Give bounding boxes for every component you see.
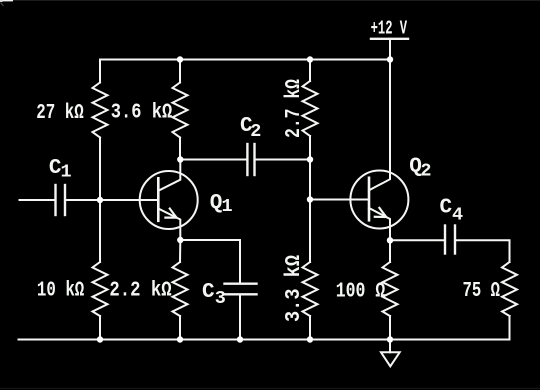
svg-text:100 Ω: 100 Ω (336, 280, 386, 303)
ground symbol (381, 352, 400, 366)
svg-text:10 kΩ: 10 kΩ (37, 280, 85, 303)
svg-text:+12 V: +12 V (371, 18, 408, 40)
node Q2 base (307, 196, 313, 202)
wire C2 node to Q2 base node (309, 160, 311, 200)
wire top rail (100, 60, 390, 83)
transistor Q2 circle (350, 171, 408, 229)
wire +12V stem (389, 39, 391, 60)
node rail ground (387, 336, 393, 342)
svg-text:1: 1 (222, 196, 233, 217)
wire C2 right (256, 159, 310, 161)
wire 2.7k to C2 node (309, 136, 311, 160)
transistor Q2 emitter arrow (375, 208, 386, 217)
svg-text:2: 2 (420, 160, 431, 181)
wire 75R to ground rail (509, 316, 511, 340)
transistor Q2 emitter lead (369, 208, 390, 240)
wire C3 to ground rail (239, 296, 241, 340)
wire 2.2k to ground rail (179, 316, 181, 340)
node Q2 emitter (387, 237, 393, 243)
capacitor C4 right plate (454, 226, 456, 254)
capacitor C1 right plate (64, 185, 66, 215)
wire C2 left (180, 159, 246, 161)
svg-text:2.2 kΩ: 2.2 kΩ (109, 280, 172, 303)
top border artifact (0, 0, 540, 1)
bottom border artifact (0, 388, 540, 389)
capacitor C4 left plate (444, 226, 446, 254)
capacitor C2 left plate (246, 144, 248, 175)
svg-text:3.6 kΩ: 3.6 kΩ (111, 102, 173, 125)
svg-text:75 Ω: 75 Ω (463, 280, 501, 303)
svg-text:C: C (440, 197, 453, 220)
wire 2.7k top lead (309, 60, 311, 82)
capacitor C2 right plate (253, 144, 255, 175)
transistor Q1 emitter arrow (165, 209, 176, 218)
resistor R 2.7k body (303, 81, 318, 136)
transistor Q2 collector lead (369, 60, 390, 191)
resistor R 100 body (383, 262, 398, 316)
svg-text:2: 2 (250, 121, 261, 142)
wire 10k to ground rail (99, 316, 101, 340)
wire C1 to base node (66, 199, 100, 201)
node C2-2.7k (307, 156, 313, 162)
node rail C3 (237, 336, 243, 342)
transistor Q1 emitter lead (158, 209, 180, 241)
wire base node to 10k (99, 200, 101, 262)
wire base node to Q2 (310, 199, 369, 201)
svg-text:4: 4 (452, 205, 463, 226)
node +12V (387, 56, 393, 62)
resistor R 10k body (93, 262, 108, 316)
node 3.6k top (177, 56, 183, 62)
node Q1 collector (177, 156, 183, 162)
wire 3.6k top lead (179, 60, 181, 83)
svg-text:C: C (202, 281, 215, 304)
transistor Q1 collector lead (158, 160, 180, 191)
node Q1 emitter (177, 237, 183, 243)
svg-text:3.3 kΩ: 3.3 kΩ (283, 255, 306, 322)
capacitor C1 left plate (54, 185, 56, 215)
wire base node to Q1 (100, 199, 158, 201)
capacitor C1 left wire (20, 199, 55, 201)
capacitor C3 top plate (225, 283, 257, 285)
transistor Q2 base bar (368, 178, 371, 221)
wire 27k to base node (99, 138, 101, 201)
svg-text:2.7 kΩ: 2.7 kΩ (283, 79, 306, 138)
resistor R 27k body (93, 83, 108, 138)
wire C4 to 75R (456, 240, 509, 262)
resistor R 3.3k body (303, 262, 318, 316)
svg-text:1: 1 (61, 162, 72, 183)
transistor Q1 circle (140, 171, 198, 229)
capacitor C3 bottom plate (225, 293, 257, 295)
wire Q1 emitter to C3 (180, 240, 240, 283)
node Q1 base (97, 197, 103, 203)
resistor R 3.6k body (173, 83, 188, 138)
resistor R 2.2k body (173, 262, 188, 316)
wire Q2 emitter to 100R (389, 240, 391, 262)
wire Q1 emitter to 2.2k (179, 240, 181, 262)
power +12V terminal bar (371, 38, 408, 40)
svg-text:3: 3 (215, 288, 226, 309)
transistor Q1 base bar (157, 178, 160, 221)
wire ground rail (19, 339, 510, 341)
wire 100R to ground rail (389, 316, 391, 340)
wire ground stub (389, 340, 391, 353)
node rail 2.2k (177, 336, 183, 342)
wire 3.3k to ground rail (309, 316, 311, 340)
wire Q2 emitter to C4 (390, 239, 444, 241)
node rail 3.3k (307, 336, 313, 342)
resistor R 75 body (502, 262, 517, 316)
node rail 10k (97, 336, 103, 342)
svg-text:27 kΩ: 27 kΩ (36, 102, 84, 125)
wire 3.6k to collector node (179, 138, 181, 160)
node 2.7k top (307, 56, 313, 62)
wire Q2 base node to 3.3k (309, 200, 311, 263)
